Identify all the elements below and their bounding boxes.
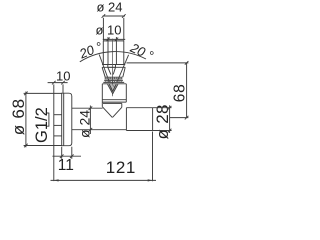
extension line 10 right: [62, 84, 64, 93]
handle bottom edge: [102, 64, 125, 66]
extension line 11 left: [61, 147, 63, 159]
wall stub bottom: [54, 124, 62, 126]
svg-text:68: 68: [172, 83, 189, 102]
junction V right: [113, 107, 122, 117]
tick 11 left: [60, 154, 64, 158]
knurled nut top line: [105, 76, 123, 78]
tick 68 bottom: [185, 116, 189, 120]
tick ø24 left: [102, 14, 106, 18]
extension line 11 right: [71, 147, 73, 159]
ø68 extension top: [24, 92, 62, 94]
rotation arc 20deg: [80, 52, 146, 62]
tube bottom edge: [72, 129, 126, 131]
tube top edge: [72, 107, 103, 109]
phantom handle line right: [117, 55, 129, 82]
ø28 extension bottom: [153, 130, 172, 132]
body block top: [102, 83, 126, 85]
seat cone inner: [109, 84, 116, 91]
68 dimension line: [186, 63, 188, 118]
end cap top: [126, 107, 152, 109]
extension line 121 right: [152, 132, 154, 182]
stem below handle: [108, 65, 116, 68]
ø24 tube dimension line: [89, 106, 91, 135]
wall stub top: [54, 114, 62, 116]
skirt top edge: [102, 66, 125, 68]
svg-text:10: 10: [56, 69, 70, 84]
seat hatch lines: [109, 85, 116, 92]
svg-text:ø 24: ø 24: [97, 0, 123, 15]
tick ø28 bottom: [168, 129, 172, 133]
dimension line 121: [51, 179, 157, 181]
68 extension bottom: [170, 117, 188, 119]
stem line right inside handle: [115, 37, 117, 65]
phantom handle line left: [99, 55, 109, 83]
tick 11 right: [70, 154, 74, 158]
body block shadow edge: [103, 102, 122, 104]
end cap left edge: [125, 108, 127, 131]
svg-text:121: 121: [106, 158, 136, 177]
68 extension top: [127, 62, 189, 64]
tick ø24 tube top: [89, 106, 93, 110]
body block right side: [125, 84, 127, 102]
tick 68 top: [185, 61, 189, 65]
arrow 121 left: [54, 179, 59, 181]
end cap right edge: [152, 108, 154, 131]
extension line ø24 left: [102, 18, 104, 41]
collar line: [103, 81, 124, 83]
body block left side: [101, 84, 103, 107]
dimension line 10: [48, 82, 68, 84]
extension line ø24 right: [123, 18, 125, 41]
tick 10 right: [61, 81, 65, 85]
svg-text:ø 68: ø 68: [9, 98, 28, 135]
tick ø68 top: [24, 92, 28, 96]
ø68 extension bottom: [24, 145, 62, 147]
G1/2 bracket line: [48, 113, 50, 127]
body block lower edge 2: [102, 101, 126, 103]
step vertical: [121, 103, 123, 107]
knurl hatching row2: [106, 81, 121, 83]
arrow 121 right: [148, 179, 153, 181]
tick ø24 tube bottom: [89, 128, 93, 132]
skirt left side: [102, 67, 105, 77]
hidden line at stub: [54, 135, 62, 137]
seat hatch fill: [108, 84, 119, 93]
stem line left inside handle: [107, 37, 109, 65]
end cap bottom: [126, 130, 152, 132]
knurl row1 bottom line: [105, 78, 123, 80]
dimension line ø24 top: [103, 15, 125, 17]
junction V left: [102, 107, 112, 118]
dimension line ø10: [103, 38, 125, 40]
knurl row2 top line: [104, 80, 123, 82]
tick ø10 right: [115, 38, 119, 42]
ø28 extension top: [153, 107, 172, 109]
svg-text:11: 11: [58, 157, 74, 174]
tick ø28 top: [168, 106, 172, 110]
tick ø24 right: [122, 14, 126, 18]
tick ø10 left: [106, 38, 110, 42]
skirt inner cone left: [108, 67, 111, 74]
body block lower edge 1: [102, 99, 126, 101]
seat cone outer: [108, 84, 119, 94]
skirt right side: [123, 67, 125, 77]
svg-text:20 °: 20 °: [127, 40, 155, 64]
tick ø68 bottom: [24, 144, 28, 148]
dimension line 11: [52, 155, 81, 157]
escutcheon inner lip: [63, 93, 65, 146]
ø28 dimension line: [169, 105, 171, 133]
knurl hatching row1: [106, 77, 121, 79]
escutcheon outline: [62, 93, 72, 146]
handle knob outline: [103, 41, 124, 65]
skirt inner cone right: [113, 67, 115, 74]
svg-text:ø 10: ø 10: [96, 22, 122, 37]
tick 10 left: [52, 81, 56, 85]
center axis line: [112, 39, 114, 97]
ø68 dimension line: [25, 92, 27, 148]
G1/2 tick top: [46, 113, 49, 126]
svg-text:G1/2: G1/2: [33, 107, 51, 143]
long extension line left (10 / stub / 121): [53, 84, 55, 181]
